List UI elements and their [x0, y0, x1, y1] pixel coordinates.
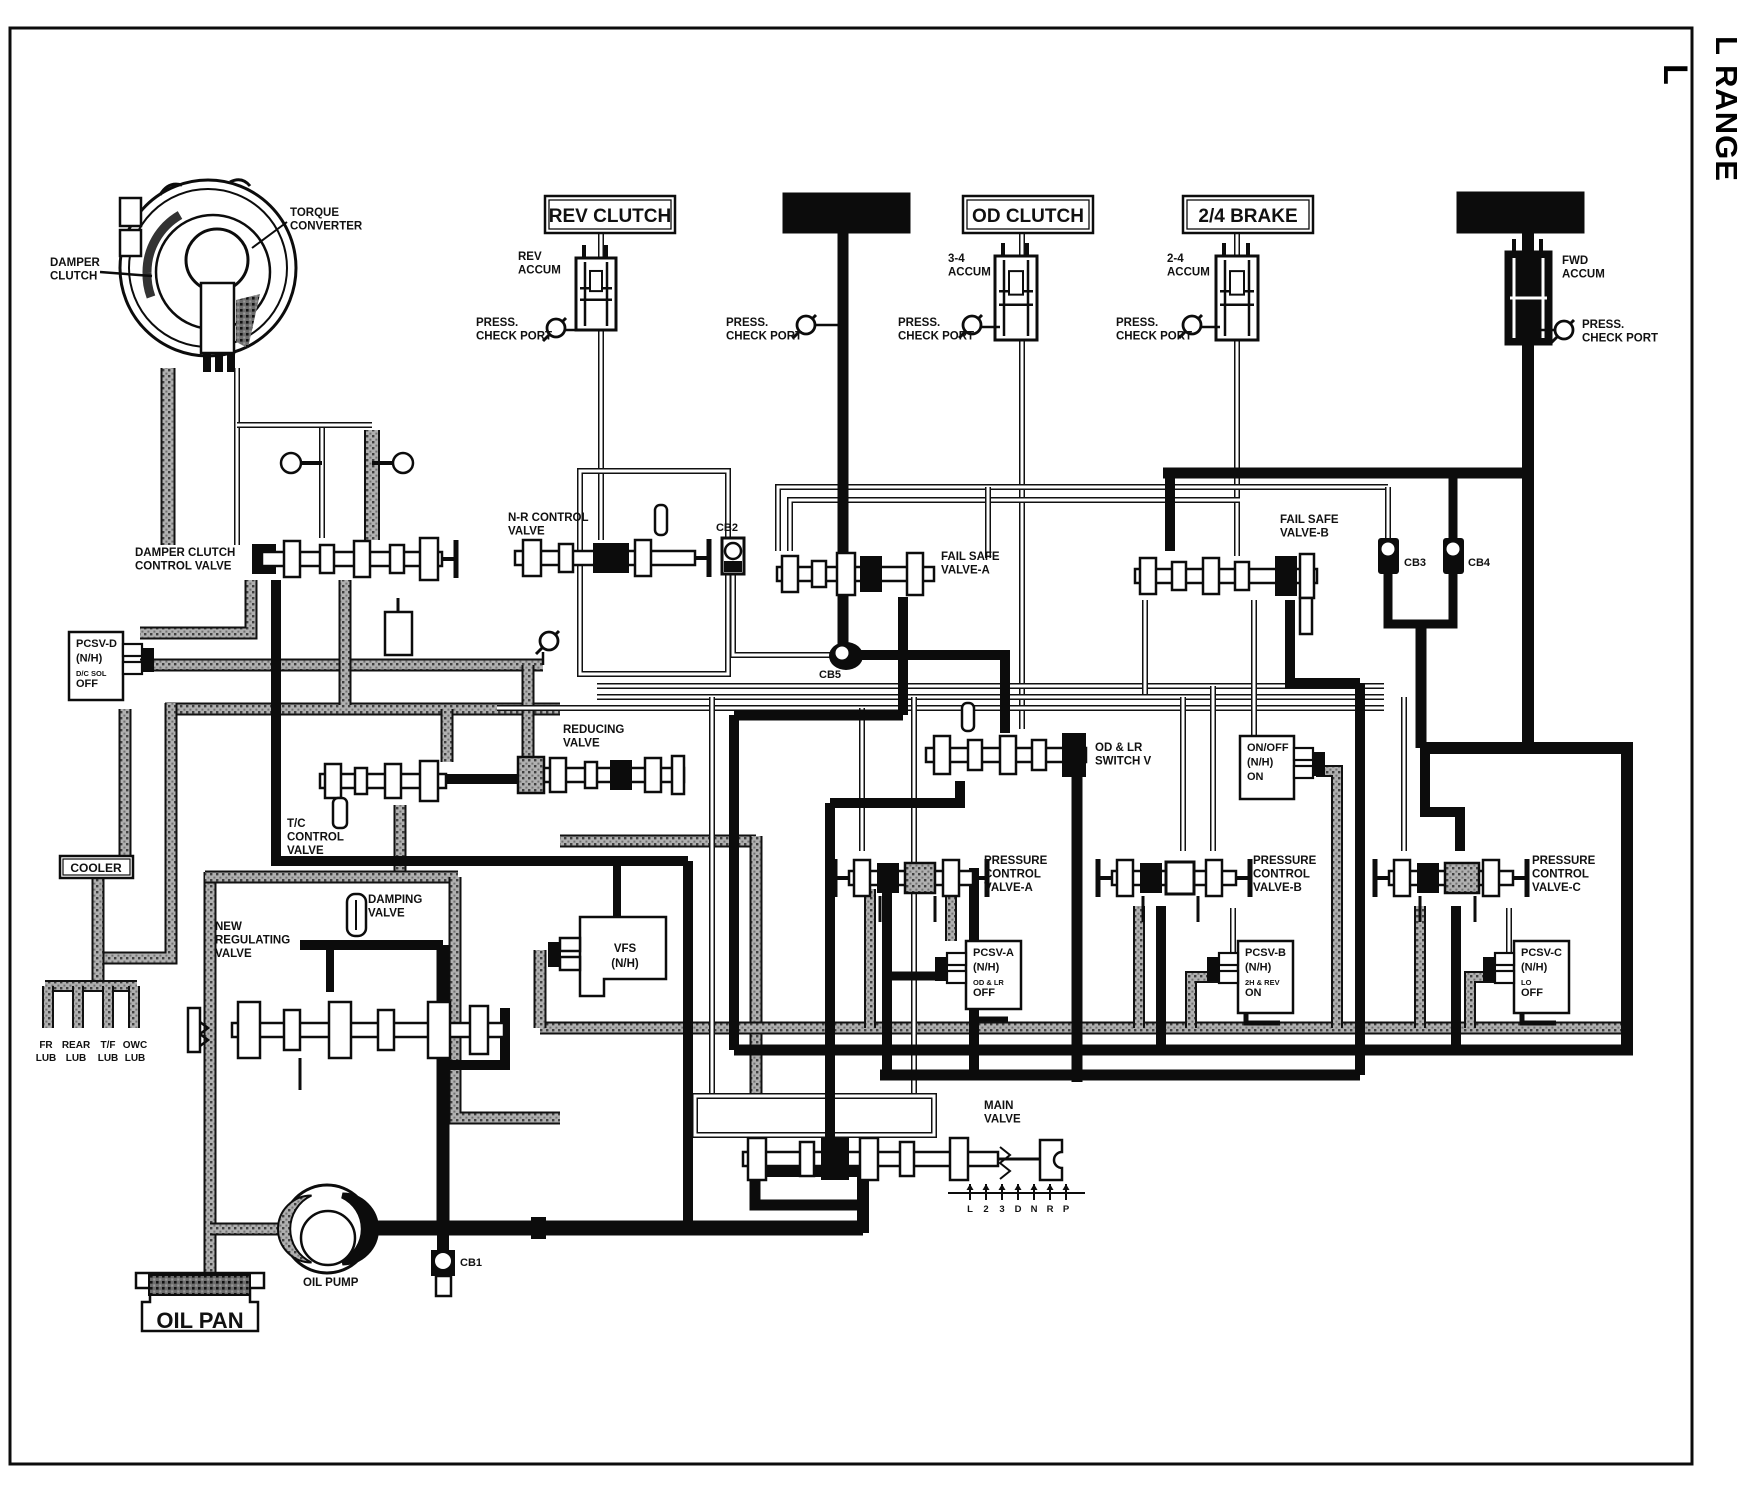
thick: pump bus corner up: [755, 1171, 863, 1233]
gray: damper valve drain: [339, 580, 352, 705]
svg-text:PRESS.: PRESS.: [476, 317, 518, 329]
N-R control valve: [515, 551, 695, 565]
damping valve: [347, 894, 366, 936]
thick: junction node: [531, 1217, 546, 1239]
svg-text:CB2: CB2: [716, 522, 738, 534]
svg-text:CB1: CB1: [460, 1257, 482, 1269]
twin: OD clutch riser: [1019, 233, 1025, 729]
svg-text:VALVE-C: VALVE-C: [1532, 882, 1581, 894]
2-4 accumulator: [1222, 243, 1226, 256]
thick: y748 link: [1421, 742, 1633, 754]
svg-text:LUB: LUB: [125, 1053, 146, 1064]
check ball CB1: [431, 1250, 455, 1276]
press check port 2: [815, 324, 843, 327]
svg-text:(N/H): (N/H): [973, 962, 1000, 974]
twin: PCSV-B stub: [1230, 908, 1236, 958]
svg-text:REV CLUTCH: REV CLUTCH: [549, 206, 671, 227]
REV CLUTCH box: [545, 196, 675, 233]
damper valve small box below: [385, 612, 412, 655]
gray: PCV-B left drain: [1133, 906, 1145, 1028]
svg-text:L: L: [1656, 64, 1694, 85]
svg-text:3-4: 3-4: [948, 253, 965, 265]
gray riser VFS to bus: [534, 950, 547, 1028]
svg-text:T/F: T/F: [101, 1040, 116, 1051]
svg-text:FAIL SAFE: FAIL SAFE: [941, 551, 1000, 563]
svg-text:VALVE-B: VALVE-B: [1253, 882, 1302, 894]
svg-text:VALVE: VALVE: [287, 845, 324, 857]
twin: fail-safe A right drop: [985, 487, 991, 558]
thick: CB3/CB4 merge: [1388, 574, 1453, 624]
orifice fitting left: [300, 461, 322, 465]
svg-text:(N/H): (N/H): [1245, 962, 1272, 974]
3-4 accumulator: [1001, 243, 1005, 256]
svg-text:PCSV-C: PCSV-C: [1521, 947, 1562, 959]
svg-text:VFS: VFS: [614, 943, 637, 955]
gray: reg valve box top: [205, 871, 458, 884]
gray: reducing out down to main valve box: [560, 835, 756, 848]
check ball CB4: [1443, 538, 1464, 574]
thick: VFS feed: [613, 861, 621, 917]
gray: reg valve box right: [455, 877, 560, 1118]
thick: CB4 feed from bus: [1449, 473, 1458, 540]
press check port 3: [980, 326, 1000, 329]
UD clutch black box: [783, 193, 910, 233]
torque converter pointer: [252, 222, 287, 248]
twin: CB2 dropper: [733, 572, 843, 655]
OD & LR switch valve: [926, 748, 1086, 762]
thick: switch valve right trunk: [1072, 772, 1083, 1082]
twin: PCSV-C stub: [1506, 908, 1512, 958]
oil pump: [283, 1185, 371, 1273]
svg-text:PRESS.: PRESS.: [1116, 317, 1158, 329]
svg-text:LUB: LUB: [36, 1053, 57, 1064]
pressure control valve A: [849, 871, 973, 885]
thick: switch valve to PCV-A: [830, 781, 960, 803]
damper clutch control valve: [252, 544, 276, 574]
svg-text:VALVE-A: VALVE-A: [941, 565, 990, 577]
thick: reg valve right elbow: [443, 1008, 505, 1065]
svg-text:COOLER: COOLER: [70, 861, 122, 875]
thick: T/C valve to reducing valve: [446, 774, 520, 784]
svg-text:DAMPER CLUTCH: DAMPER CLUTCH: [135, 547, 235, 559]
svg-text:L RANGE: L RANGE: [1709, 36, 1744, 182]
twin: bus y500: [790, 500, 1240, 551]
svg-text:CONTROL: CONTROL: [984, 869, 1041, 881]
svg-text:CONTROL: CONTROL: [1253, 869, 1310, 881]
svg-text:ACCUM: ACCUM: [518, 265, 561, 277]
svg-text:CONVERTER: CONVERTER: [290, 221, 363, 233]
gray: regulating valve suction from oil pan: [204, 872, 217, 1276]
svg-text:SWITCH V: SWITCH V: [1095, 756, 1152, 768]
oil pan: [136, 1273, 264, 1331]
twin: PCV-A feeder: [859, 708, 865, 851]
gray line: PCSV-D up-elbow to damper clutch valve: [140, 580, 251, 633]
svg-text:MAIN: MAIN: [984, 1100, 1013, 1112]
thick: bus B y1075: [880, 1070, 1360, 1081]
svg-text:R: R: [1047, 1204, 1054, 1215]
check port on reducing feed line: [542, 652, 545, 665]
gray line: PCSV-D output to check port (y 665): [140, 659, 543, 672]
solenoid PCSV-C: [1514, 941, 1569, 1013]
svg-text:OD CLUTCH: OD CLUTCH: [972, 206, 1084, 227]
svg-text:L: L: [967, 1204, 973, 1215]
gray: PCV-C left drain: [1414, 906, 1426, 1028]
svg-text:PRESS.: PRESS.: [1582, 319, 1624, 331]
svg-text:CHECK PORT: CHECK PORT: [1116, 331, 1192, 343]
solenoid PCSV-D: [69, 632, 123, 700]
pressure control valve B: [1112, 871, 1236, 885]
svg-text:CONTROL: CONTROL: [287, 832, 344, 844]
svg-text:T/C: T/C: [287, 818, 306, 830]
check ball CB5: [829, 642, 863, 670]
thick: fail-safe B feed stub: [1165, 473, 1175, 551]
gray: reducing valve inlet: [522, 665, 535, 757]
svg-text:PRESSURE: PRESSURE: [1532, 855, 1596, 867]
gray: PCSV-C elbow: [1470, 977, 1514, 1028]
thick: right trunk down: [1621, 748, 1633, 1050]
twin: ON/OFF riser from fail safe B: [1251, 600, 1257, 736]
thick: CB5 to switch valve: [850, 655, 1005, 733]
svg-text:VALVE: VALVE: [368, 908, 405, 920]
twin: bus y487: [778, 487, 1388, 551]
thick: y715 bus: [734, 710, 903, 721]
svg-text:ON/OFF: ON/OFF: [1247, 742, 1289, 754]
svg-text:OIL PUMP: OIL PUMP: [303, 1277, 359, 1289]
twin: bus y686: [597, 683, 1384, 689]
thick: UD clutch trunk: [838, 233, 849, 650]
gray: pump suction: [210, 1223, 290, 1236]
VFS solenoid: [580, 917, 666, 996]
svg-text:CB5: CB5: [819, 669, 841, 681]
svg-text:OD & LR: OD & LR: [1095, 742, 1143, 754]
gray bus y709: [165, 703, 560, 716]
twin: big center rectangle: [580, 471, 728, 674]
svg-text:ACCUM: ACCUM: [1562, 269, 1605, 281]
svg-text:VALVE: VALVE: [984, 1114, 1021, 1126]
svg-text:2: 2: [983, 1204, 988, 1215]
svg-text:D: D: [1015, 1204, 1022, 1215]
manual lever positions: [948, 1192, 1085, 1194]
FWD accumulator: [1512, 239, 1516, 252]
svg-text:CB3: CB3: [1404, 557, 1426, 569]
svg-text:D/C SOL: D/C SOL: [76, 669, 107, 678]
gray vert x171 cooler loop: [98, 703, 171, 958]
REV accumulator: [582, 245, 586, 258]
svg-text:P: P: [1063, 1204, 1070, 1215]
svg-text:(N/H): (N/H): [1247, 757, 1274, 769]
svg-text:ON: ON: [1247, 771, 1264, 783]
svg-text:(N/H): (N/H): [76, 653, 103, 665]
svg-text:CONTROL VALVE: CONTROL VALVE: [135, 561, 232, 573]
svg-text:VALVE: VALVE: [215, 948, 252, 960]
thick: x443 trunk to pump bus: [437, 945, 450, 1233]
twin: PCV-C feeder: [1401, 697, 1407, 851]
gray vert cooler to lub comb: [92, 877, 105, 988]
thick: fail-safe A drain: [898, 597, 908, 715]
svg-text:NEW: NEW: [215, 921, 242, 933]
thick: CB1 stub: [437, 1233, 449, 1250]
damper clutch pointer: [100, 272, 152, 276]
svg-text:3: 3: [999, 1204, 1004, 1215]
svg-text:CHECK PORT: CHECK PORT: [898, 331, 974, 343]
check ball CB3: [1378, 538, 1399, 574]
gray cooler feed: [119, 709, 132, 856]
gray line: TC right-col to damper valve: [364, 430, 380, 540]
svg-text:REAR: REAR: [62, 1040, 91, 1051]
svg-text:VALVE: VALVE: [563, 738, 600, 750]
svg-text:ON: ON: [1245, 987, 1262, 999]
gray: T/C valve bottom link: [394, 805, 407, 877]
svg-text:LUB: LUB: [66, 1053, 87, 1064]
thick: damping valve line: [300, 940, 443, 950]
thick: PCV-C top feed: [1425, 748, 1460, 851]
fail safe valve A: [777, 567, 934, 581]
svg-text:VALVE: VALVE: [508, 526, 545, 538]
gray: PCSV-B elbow: [1191, 977, 1238, 1028]
svg-text:OIL PAN: OIL PAN: [156, 1308, 243, 1333]
thick: top bus y473: [1163, 468, 1528, 479]
svg-text:CHECK PORT: CHECK PORT: [726, 331, 802, 343]
press check port 4: [1200, 326, 1220, 329]
svg-text:DAMPING: DAMPING: [368, 894, 422, 906]
svg-text:LUB: LUB: [98, 1053, 119, 1064]
solenoid ON/OFF: [1240, 736, 1294, 799]
2/4 BRAKE box: [1183, 196, 1313, 233]
thick: fail safe B drain: [1290, 600, 1360, 683]
svg-text:LO: LO: [1521, 978, 1532, 987]
gray: PCSV-A feed: [945, 889, 957, 941]
twin: bus y697: [597, 694, 1384, 700]
gray bus y1028: [540, 1022, 1627, 1035]
svg-text:PRESSURE: PRESSURE: [1253, 855, 1317, 867]
gray line: TC left stem: [161, 368, 176, 545]
orifice fitting right: [372, 461, 394, 465]
svg-text:N: N: [1031, 1204, 1038, 1215]
svg-text:FR: FR: [39, 1040, 53, 1051]
svg-text:DAMPER: DAMPER: [50, 257, 101, 269]
svg-text:VALVE-B: VALVE-B: [1280, 528, 1329, 540]
svg-text:2-4: 2-4: [1167, 253, 1184, 265]
svg-text:2H & REV: 2H & REV: [1245, 978, 1280, 987]
thick: x734 trunk: [729, 715, 739, 1050]
svg-text:PCSV-B: PCSV-B: [1245, 947, 1286, 959]
svg-text:ACCUM: ACCUM: [948, 267, 991, 279]
svg-text:FWD: FWD: [1562, 255, 1588, 267]
twin: CB3 stub: [1385, 487, 1391, 540]
thick: PCSV-A link: [887, 972, 944, 981]
lub comb: [45, 980, 137, 992]
thick: PCV-C drain: [1451, 906, 1461, 1050]
T/C control valve: [320, 774, 446, 788]
svg-text:CLUTCH: CLUTCH: [50, 271, 97, 283]
FWD clutch black box: [1457, 192, 1584, 233]
svg-text:CHECK PORT: CHECK PORT: [1582, 333, 1658, 345]
svg-text:OFF: OFF: [1521, 987, 1543, 999]
twin: bus y708: [497, 705, 1384, 711]
svg-text:PRESS.: PRESS.: [898, 317, 940, 329]
main valve: [743, 1152, 998, 1166]
twin: PCV-B feeders: [1180, 697, 1186, 851]
svg-text:OFF: OFF: [973, 987, 995, 999]
reducing valve: [518, 757, 544, 793]
press check port 1: [565, 329, 601, 332]
svg-text:ACCUM: ACCUM: [1167, 267, 1210, 279]
thick: FWD clutch trunk: [1522, 233, 1534, 748]
gray: TC valve inlet: [441, 709, 454, 762]
thick: pump discharge bus: [360, 1221, 863, 1236]
new regulating valve: [232, 1023, 504, 1037]
svg-text:REDUCING: REDUCING: [563, 724, 624, 736]
svg-text:PCSV-A: PCSV-A: [973, 947, 1014, 959]
twin: REV clutch riser: [598, 233, 604, 540]
svg-text:CB4: CB4: [1468, 557, 1491, 569]
svg-text:OD & LR: OD & LR: [973, 978, 1004, 987]
thick: x974 drain: [969, 868, 979, 1075]
svg-text:2/4 BRAKE: 2/4 BRAKE: [1198, 206, 1297, 227]
svg-text:PCSV-D: PCSV-D: [76, 638, 117, 650]
twin: 2/4 brake riser: [1234, 233, 1240, 556]
twin: TC mid column: [234, 368, 240, 545]
thick: T/C line across: [276, 580, 688, 861]
svg-text:TORQUE: TORQUE: [290, 207, 339, 219]
svg-text:N-R CONTROL: N-R CONTROL: [508, 512, 589, 524]
press check port 5: [1540, 329, 1556, 332]
pressure control valve C: [1389, 871, 1513, 885]
svg-text:REGULATING: REGULATING: [215, 935, 290, 947]
svg-text:(N/H): (N/H): [611, 958, 639, 970]
gray: PCV-A left drain: [864, 889, 876, 1028]
thick: PCV-A drain to bus: [882, 889, 892, 1075]
svg-text:VALVE-A: VALVE-A: [984, 882, 1033, 894]
svg-text:CONTROL: CONTROL: [1532, 869, 1589, 881]
svg-text:OWC: OWC: [123, 1040, 147, 1051]
svg-text:PRESSURE: PRESSURE: [984, 855, 1048, 867]
cooler: [60, 856, 133, 878]
twin: main valve outline box: [695, 1096, 934, 1135]
twin: fail safe B left drain: [1142, 600, 1148, 694]
thick: PCV-B drain: [1156, 906, 1166, 1050]
solenoid PCSV-B: [1238, 941, 1293, 1013]
twin: main valve feeders: [709, 697, 715, 1096]
svg-text:REV: REV: [518, 251, 542, 263]
svg-text:OFF: OFF: [76, 678, 98, 690]
solenoid PCSV-A: [966, 941, 1021, 1009]
svg-text:(N/H): (N/H): [1521, 962, 1548, 974]
gray: ON/OFF loop: [1316, 771, 1337, 1028]
thick: bus A y1050: [734, 1045, 1633, 1056]
svg-text:PRESS.: PRESS.: [726, 317, 768, 329]
torque converter: [120, 180, 296, 356]
svg-text:CHECK PORT: CHECK PORT: [476, 331, 552, 343]
check ball CB2: [722, 538, 744, 574]
fail safe valve B: [1135, 569, 1317, 583]
OD CLUTCH box: [963, 196, 1093, 233]
svg-text:FAIL SAFE: FAIL SAFE: [1280, 514, 1339, 526]
